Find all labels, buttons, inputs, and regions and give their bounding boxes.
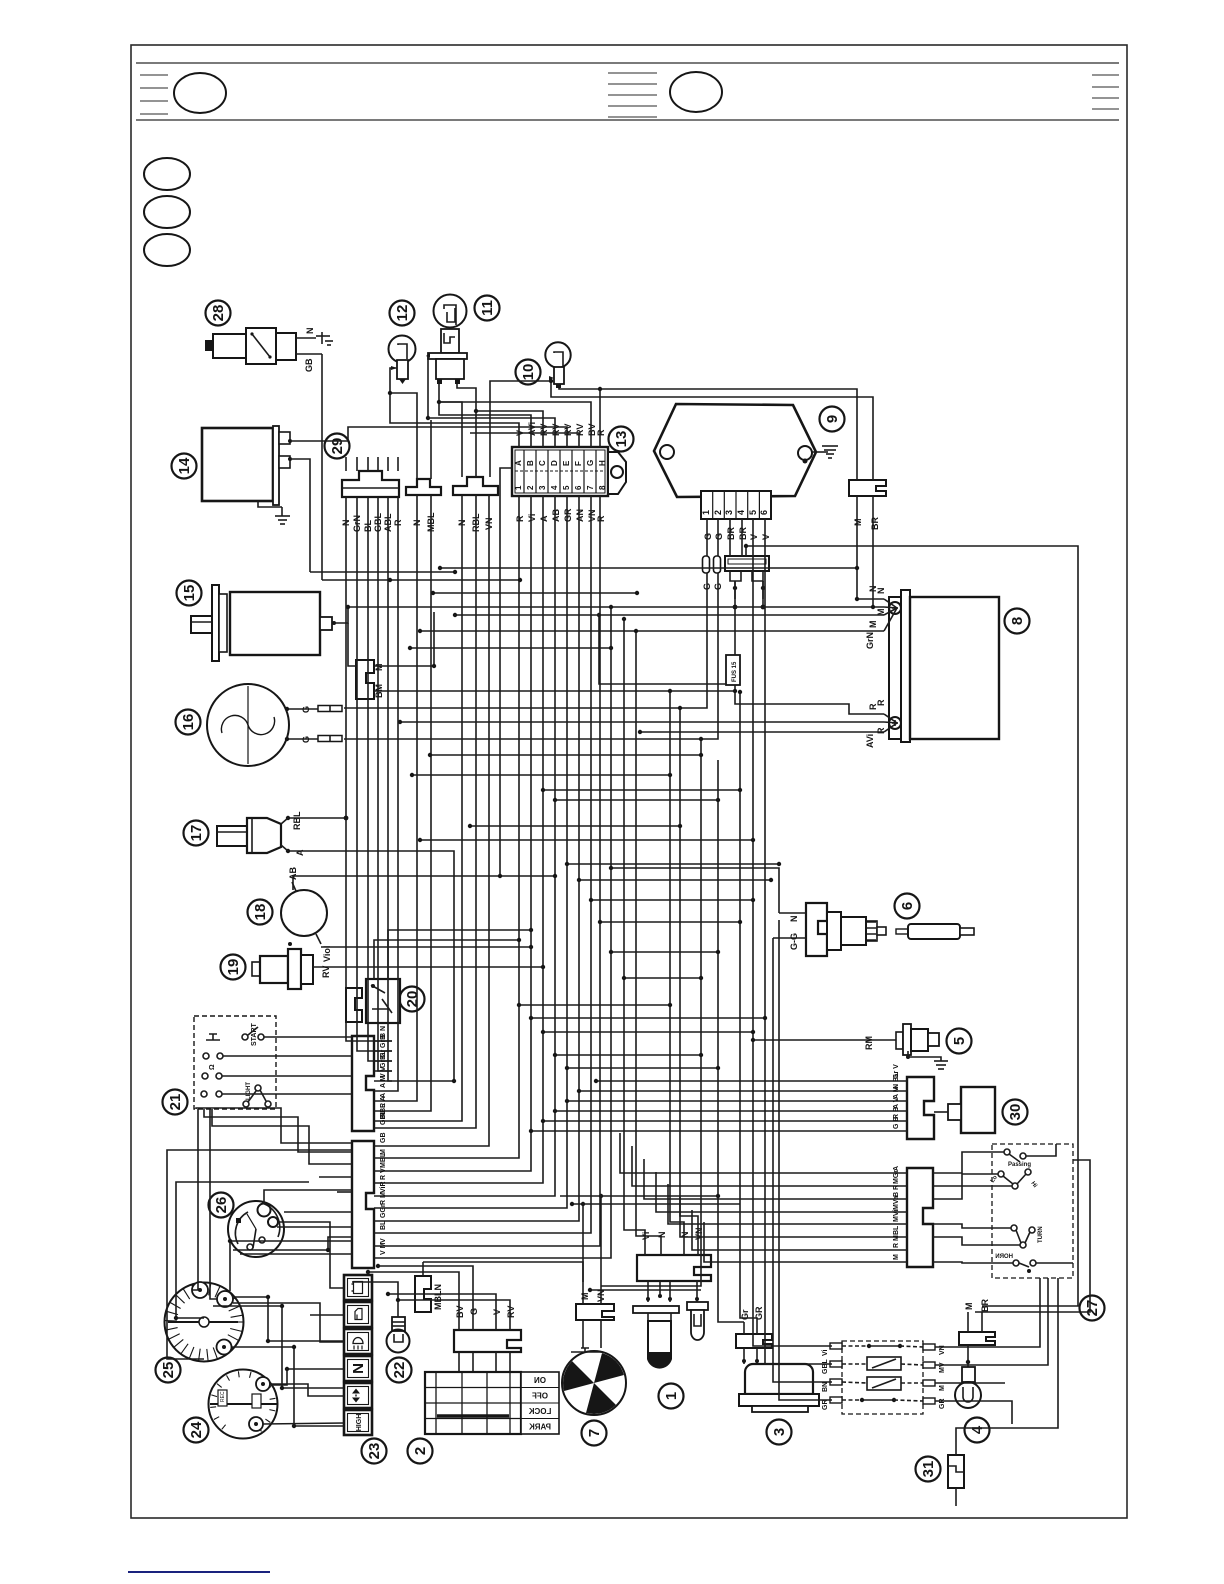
- wire mesh mid d: [412, 774, 670, 776]
- horn 18: [281, 867, 332, 962]
- wire 21 contact3: [222, 1075, 352, 1077]
- svg-text:G B: G B: [893, 1117, 900, 1129]
- wire bundle to conn E: [392, 496, 567, 1208]
- junction: [453, 613, 457, 617]
- wire fusebox RV-F up: [470, 433, 579, 447]
- wire GB from 28: [296, 354, 322, 580]
- svg-text:23: 23: [366, 1443, 383, 1460]
- wire FUS15 out to battery plus: [735, 685, 884, 714]
- svg-text:G: G: [586, 460, 595, 466]
- wire tail10 line 2: [551, 378, 873, 480]
- junction: [638, 730, 642, 734]
- wire BR drop join: [872, 530, 874, 607]
- label circle 21: [163, 1090, 188, 1115]
- wire mesh mid b: [433, 592, 637, 594]
- wire M drop join: [857, 530, 884, 599]
- wire 21 bottom route3: [212, 1109, 352, 1164]
- label circle 13: [609, 427, 634, 452]
- ignition switch 21 dashed box: [194, 1016, 276, 1109]
- wire bundle to conn E: [392, 496, 543, 1183]
- svg-text:ViR: ViR: [380, 1181, 387, 1193]
- junction: [438, 566, 442, 570]
- wire 27 link: [933, 1237, 1020, 1245]
- wire 29c pin: [489, 461, 491, 477]
- svg-text:M: M: [374, 664, 384, 672]
- wire left low h2: [240, 1253, 352, 1255]
- junction: [418, 838, 422, 842]
- oil pressure switch 17: [217, 811, 305, 856]
- wire 29b pin1: [416, 461, 418, 479]
- wire left low v: [229, 1241, 231, 1291]
- svg-text:A: A: [514, 460, 523, 466]
- svg-text:2: 2: [526, 485, 535, 490]
- junction: [529, 1129, 533, 1133]
- wire 19 RV right: [330, 966, 543, 968]
- ground for 9: [812, 446, 838, 458]
- wire FUS15 left branch: [599, 615, 726, 684]
- wire bundle to conn D: [392, 497, 398, 1091]
- junction: [738, 690, 742, 694]
- wire 26 lamp feed: [264, 1190, 352, 1204]
- wire bulb12 to fusebox V: [390, 368, 519, 447]
- junction: [763, 1016, 767, 1020]
- wire reg pin4 BR to main fuse: [741, 519, 743, 556]
- wire flasher14 tab1 to fusebox RV-E: [292, 427, 567, 447]
- wire mesh low3: [590, 1289, 701, 1291]
- front brake light switch 19: [252, 942, 331, 989]
- svg-text:4: 4: [550, 485, 559, 490]
- spark plug 6 with cap: [773, 903, 974, 956]
- junction: [751, 838, 755, 842]
- svg-text:6: 6: [574, 485, 583, 490]
- wire 29a pin: [387, 457, 389, 471]
- wire to tail GR: [740, 692, 757, 1322]
- junction: [292, 1345, 296, 1349]
- svg-text:R M: R M: [380, 1192, 387, 1205]
- wire plus fan: [884, 714, 897, 723]
- svg-text:M: M: [580, 1293, 590, 1301]
- headlamp bulb 11: [426, 295, 467, 385]
- wire 29b pin2: [430, 461, 432, 479]
- junction: [769, 878, 773, 882]
- wire 29a pin: [397, 457, 399, 471]
- wire mesh h: [519, 1004, 670, 1006]
- junction: [541, 788, 545, 792]
- svg-text:Vi: Vi: [822, 1349, 829, 1356]
- svg-text:3: 3: [538, 485, 547, 490]
- junction: [541, 1119, 545, 1123]
- tail light 3 body: [739, 1364, 819, 1412]
- svg-text:11: 11: [479, 300, 496, 316]
- tail bulb 10: [545, 342, 570, 388]
- ground for switch 28: [316, 332, 333, 345]
- ignition generator 7: [562, 1351, 626, 1415]
- svg-text:15: 15: [181, 585, 198, 602]
- wire bundle to conn D: [357, 497, 392, 1051]
- wire reg pin3 BR to main fuse: [729, 519, 731, 556]
- junction: [346, 605, 350, 609]
- license plate light 4: [955, 1299, 995, 1408]
- alternator 16: [207, 684, 342, 766]
- svg-text:MVi: MVi: [893, 1210, 900, 1222]
- junction: [589, 898, 593, 902]
- wire 27 feed: [644, 1159, 889, 1199]
- junction: [431, 591, 435, 595]
- junction: [468, 824, 472, 828]
- svg-text:START: START: [251, 1022, 258, 1046]
- svg-text:M: M: [853, 519, 863, 527]
- wire 25 to E: [233, 1237, 352, 1250]
- junction: [622, 617, 626, 621]
- junction: [565, 862, 569, 866]
- wire mesh h: [543, 1031, 753, 1033]
- junction: [635, 591, 639, 595]
- svg-text:R: R: [596, 515, 606, 522]
- junction: [280, 1304, 284, 1308]
- wire bundle to conn E: [392, 496, 600, 1246]
- wire minus fan: [884, 607, 897, 608]
- svg-text:28: 28: [210, 305, 227, 322]
- wire flasher M right: [935, 1382, 1005, 1384]
- junction: [565, 1099, 569, 1103]
- svg-text:10: 10: [520, 364, 537, 381]
- wire mesh h: [531, 1017, 765, 1019]
- junction: [432, 664, 436, 668]
- label circle 5: [947, 1029, 972, 1054]
- label circle 16: [176, 710, 201, 735]
- wire mesh mid a: [440, 567, 857, 569]
- svg-text:V: V: [749, 534, 759, 540]
- wire mesh h: [543, 789, 740, 791]
- svg-text:BL: BL: [380, 1220, 387, 1230]
- svg-text:R: R: [596, 429, 606, 436]
- svg-text:8: 8: [1009, 617, 1026, 625]
- svg-text:F: F: [574, 461, 583, 466]
- svg-text:GR: GR: [563, 508, 573, 522]
- svg-text:OFF: OFF: [532, 1392, 548, 1401]
- wire bundle to conn E: [392, 607, 611, 1258]
- wire mesh step1: [310, 571, 455, 573]
- wire 27 box exit right: [975, 1160, 1090, 1312]
- wire key V: [388, 1294, 496, 1330]
- svg-text:R: R: [868, 703, 878, 710]
- wire 21 bottom wire1: [192, 1109, 198, 1290]
- wire 17 A right: [290, 851, 454, 1081]
- wire cluster box2 feed: [310, 1314, 344, 1316]
- junction: [733, 689, 737, 693]
- svg-text:N: N: [789, 916, 799, 923]
- junction: [498, 874, 502, 878]
- svg-text:GB: GB: [380, 1133, 387, 1144]
- junction: [609, 605, 613, 609]
- regulator terminal strip: [701, 491, 771, 519]
- wire fuse G2 to alternator: [344, 573, 718, 739]
- wire to generator 7: [601, 739, 701, 1286]
- wire 18 AB up: [293, 876, 555, 890]
- wire reg pin5 V long down to flasher Vi: [753, 519, 832, 1346]
- rear brake light switch 28: [205, 328, 316, 365]
- wire mesh step3: [410, 647, 611, 649]
- wire plus fan: [884, 722, 897, 723]
- svg-text:M: M: [964, 1303, 974, 1311]
- svg-text:5: 5: [748, 510, 758, 515]
- label circle 2: [408, 1439, 433, 1464]
- junction: [678, 706, 682, 710]
- svg-text:3: 3: [724, 510, 734, 515]
- headlight 1 connector: [637, 1227, 711, 1281]
- wire 27 feed: [692, 1210, 889, 1250]
- junction: [453, 570, 457, 574]
- svg-text:M: M: [939, 1385, 946, 1391]
- svg-text:GR: GR: [822, 1400, 829, 1411]
- lights relay 30: [934, 1087, 995, 1133]
- junction: [751, 1030, 755, 1034]
- svg-text:29: 29: [329, 438, 346, 455]
- svg-text:G: G: [301, 736, 311, 743]
- wire mesh h: [624, 977, 701, 979]
- wire relay20 up1: [374, 940, 519, 966]
- wire 21 contact4: [222, 1093, 352, 1095]
- junction: [529, 945, 533, 949]
- label circle 4: [965, 1418, 990, 1443]
- svg-text:14: 14: [176, 457, 193, 474]
- wire tail10 line 1: [559, 388, 857, 480]
- junction: [622, 976, 626, 980]
- svg-text:R V: R V: [380, 1168, 387, 1180]
- connector to handlebar right: [889, 1064, 934, 1139]
- svg-text:AB: AB: [551, 509, 561, 522]
- wire bundle to conn D: [388, 497, 392, 1081]
- wire 26 to E 1: [284, 1211, 352, 1213]
- wire horn out: [1036, 1262, 1073, 1264]
- ground for 14: [275, 507, 290, 524]
- junction: [376, 1264, 380, 1268]
- wire bundle to conn E: [392, 496, 531, 1171]
- junction: [280, 1386, 284, 1390]
- wire batt minus M2: [455, 614, 884, 616]
- wire bundle to conn E: [392, 496, 555, 1196]
- wire bundle to conn E: [392, 496, 519, 1158]
- label circle 15: [177, 581, 202, 606]
- svg-text:30: 30: [1007, 1104, 1024, 1121]
- label circle 29: [325, 434, 350, 459]
- tail light 3 connector: [736, 1306, 772, 1364]
- junction: [678, 824, 682, 828]
- junction: [855, 566, 859, 570]
- svg-text:GBL: GBL: [380, 1110, 387, 1126]
- svg-text:HORN: HORN: [995, 1254, 1013, 1260]
- wire gauge rail 3: [232, 1347, 344, 1426]
- junction: [716, 798, 720, 802]
- wire fuse G1 to alternator: [344, 573, 707, 708]
- headlight 1 main bulb: [633, 1281, 679, 1368]
- wire to headlight Vi: [624, 619, 645, 1243]
- wire 27 link: [933, 1262, 1013, 1263]
- wire key BV: [368, 1272, 459, 1330]
- wire 29a pin: [356, 457, 358, 471]
- wire left rail 1: [167, 1150, 351, 1359]
- svg-text:BR: BR: [870, 517, 880, 530]
- junction: [668, 1003, 672, 1007]
- resistor 31: [948, 1442, 964, 1506]
- wire bulb10 branch: [490, 381, 551, 461]
- footer blue rule: [128, 1571, 270, 1573]
- svg-text:V: V: [492, 1309, 502, 1315]
- svg-text:REC: REC: [220, 1391, 226, 1402]
- junction: [716, 1194, 720, 1198]
- svg-text:AN: AN: [575, 509, 585, 522]
- wire flasher VN up: [935, 1278, 1040, 1347]
- junction: [668, 689, 672, 693]
- svg-text:5: 5: [562, 485, 571, 490]
- wire fusebox BV up: [437, 402, 591, 447]
- junction: [292, 1424, 296, 1428]
- svg-text:BR: BR: [738, 527, 748, 540]
- battery plus wire labels: [865, 699, 886, 748]
- wire bulb12 branch to 29b: [390, 393, 417, 461]
- connector above 7: [571, 1194, 614, 1352]
- bulb 12 (position light): [389, 336, 416, 385]
- svg-text:2: 2: [713, 510, 723, 515]
- wire spark N up: [611, 868, 779, 913]
- handlebar switch 27 dashed box: [990, 1144, 1073, 1278]
- header oval left: [174, 73, 226, 113]
- svg-text:G: G: [714, 533, 724, 540]
- wire to headlight N1: [636, 631, 661, 1243]
- wire flasher GR right: [935, 1401, 1012, 1424]
- svg-text:27: 27: [1084, 1300, 1101, 1317]
- junction: [744, 544, 748, 548]
- wire spark G-G down to flasher BN: [773, 938, 832, 1382]
- svg-text:A: A: [295, 849, 305, 856]
- wire fusebox R-H up to tail line: [599, 389, 601, 447]
- fuse G left: [702, 556, 712, 590]
- svg-text:13: 13: [613, 431, 630, 448]
- svg-text:4: 4: [969, 1425, 986, 1434]
- voltage regulator 9: [654, 404, 816, 497]
- wire passing out: [1026, 1144, 1056, 1156]
- svg-text:21: 21: [167, 1094, 184, 1111]
- svg-text:12: 12: [394, 305, 411, 322]
- wire main fuse left tab through FUS15: [734, 581, 736, 655]
- wire mesh h: [611, 951, 718, 953]
- starter motor 15: [191, 585, 336, 661]
- wire batt plus R3: [640, 731, 884, 733]
- wire fusebox RV-D up: [428, 418, 555, 447]
- fuel gauge 26: [228, 1201, 284, 1257]
- svg-text:7: 7: [586, 1429, 603, 1437]
- svg-text:Vi: Vi: [527, 514, 537, 522]
- svg-text:AVi: AVi: [527, 422, 537, 436]
- warning light cluster 23: [344, 1275, 372, 1435]
- fuse G right: [713, 556, 723, 590]
- wire 27 link: [933, 1224, 1011, 1228]
- svg-text:AVi: AVi: [865, 734, 875, 748]
- svg-text:E: E: [562, 460, 571, 466]
- svg-text:22: 22: [391, 1362, 408, 1379]
- svg-text:R M: R M: [893, 1235, 900, 1248]
- wire 27 link: [933, 1186, 1012, 1199]
- wire bundle to conn D: [392, 495, 431, 1111]
- svg-text:MBL: MBL: [380, 1152, 387, 1168]
- tachometer 24: [209, 1370, 279, 1439]
- junction: [541, 965, 545, 969]
- wire labels below 29: [341, 513, 403, 533]
- wire to headlight VN: [680, 708, 698, 1243]
- wire starter to BM connector: [348, 623, 356, 666]
- wire reg pin2 G to fuse: [717, 519, 719, 556]
- header tick lines left: [140, 73, 1119, 117]
- main fuse 30A: [725, 556, 769, 599]
- wire 6pin feed: [579, 1090, 889, 1092]
- label circle 22: [387, 1358, 412, 1383]
- label circle 19: [221, 955, 246, 980]
- svg-text:6: 6: [759, 510, 769, 515]
- wire 29a pin: [345, 457, 347, 471]
- svg-text:GB: GB: [304, 358, 314, 372]
- wire gauge rail 4: [270, 1369, 344, 1385]
- wire bundle to conn E: [392, 496, 591, 1233]
- wire 27 link: [933, 1152, 1004, 1173]
- svg-text:R: R: [876, 727, 886, 734]
- header oval middle: [670, 72, 722, 112]
- instrument bulb 22: [387, 1300, 410, 1353]
- connector block 29a: [342, 471, 399, 497]
- wire starter stud to minus: [334, 607, 348, 623]
- svg-text:16: 16: [180, 714, 197, 731]
- connector MBLN: [415, 1262, 443, 1312]
- svg-text:1: 1: [701, 510, 711, 515]
- junction: [699, 1053, 703, 1057]
- junction: [598, 387, 602, 391]
- multipin connector lower left: [352, 1133, 392, 1269]
- svg-text:B R: B R: [893, 1185, 900, 1197]
- wire flasher14 tab2 down: [292, 459, 310, 572]
- wire bundle to conn E: [392, 496, 579, 1221]
- svg-text:ON: ON: [534, 1376, 546, 1385]
- wire 17 RBL right: [290, 817, 346, 819]
- turn flasher unit dashed box: [822, 1341, 946, 1414]
- junction: [609, 866, 613, 870]
- svg-text:8: 8: [598, 485, 607, 490]
- wire minus fan: [884, 599, 897, 608]
- wire mesh h: [567, 863, 779, 865]
- svg-text:D: D: [550, 460, 559, 466]
- wire 21 contact2: [223, 1055, 352, 1057]
- wire bundle to conn D: [346, 497, 392, 1041]
- junction: [668, 773, 672, 777]
- wire 21 start contact: [264, 1036, 352, 1038]
- svg-text:Passing: Passing: [1008, 1162, 1031, 1168]
- junction: [517, 938, 521, 942]
- junction: [716, 1066, 720, 1070]
- wire relay20 up2: [388, 930, 531, 958]
- regulator pin wire labels: [703, 527, 771, 540]
- svg-text:GrBL: GrBL: [380, 1050, 387, 1068]
- wire 29a pin: [367, 457, 369, 471]
- label circle 11: [475, 296, 500, 321]
- svg-text:R: R: [515, 515, 525, 522]
- fuse 15A: [726, 655, 740, 685]
- wire E left extra2: [337, 1191, 352, 1193]
- wire MBLN to generator M: [423, 1262, 583, 1282]
- junction: [777, 862, 781, 866]
- junction: [388, 578, 392, 582]
- wire fusebox left wire: [500, 468, 512, 876]
- battery minus wire labels: [865, 586, 886, 650]
- svg-text:1: 1: [514, 485, 523, 490]
- wire neutral RM feed: [753, 1039, 862, 1041]
